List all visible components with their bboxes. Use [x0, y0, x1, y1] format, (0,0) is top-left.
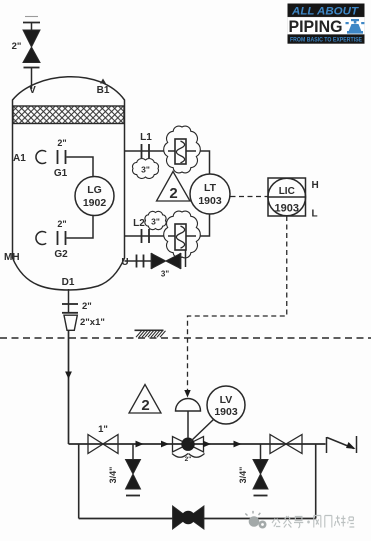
drain tee right wire — [260, 444, 262, 460]
gauge glass nozzle G1: open-end C symbol — [36, 151, 46, 164]
signal wire LT to LIC (dashed) — [231, 196, 268, 198]
drain valve 3/4 inch left (filled) — [126, 460, 141, 490]
flow arrow — [161, 441, 169, 448]
gate valve 3" at U (filled) — [152, 253, 181, 269]
svg-text:3": 3" — [161, 270, 169, 279]
svg-text:2"x1": 2"x1" — [80, 317, 105, 328]
cloud note around L2 seal — [164, 211, 201, 258]
svg-text:2: 2 — [141, 397, 149, 414]
bypass pipe run — [79, 518, 316, 520]
cloud note 3" (L2) — [145, 211, 166, 229]
svg-text:L1: L1 — [140, 132, 152, 143]
svg-text:3/4": 3/4" — [108, 467, 118, 484]
nozzle D1 stub — [68, 289, 70, 313]
flow arrow down — [65, 372, 72, 380]
svg-text:FROM BASIC TO EXPERTISE: FROM BASIC TO EXPERTISE — [290, 36, 363, 43]
diaphragm actuator — [176, 399, 201, 411]
gauge glass nozzle G2: open-end C symbol — [36, 232, 46, 245]
flange pair L1 — [142, 144, 150, 158]
nozzle L2 wire — [125, 214, 210, 236]
svg-text:2": 2" — [57, 138, 66, 148]
flange D1 — [62, 303, 78, 305]
flow arrow — [234, 441, 242, 448]
ground hatch — [135, 330, 166, 337]
svg-text:L: L — [312, 209, 318, 220]
watermark text (placeholder glyph strokes) — [272, 516, 354, 529]
drain tee left wire — [132, 444, 134, 460]
vessel shell — [13, 77, 125, 290]
level gauge LG 1902 — [75, 177, 114, 216]
svg-text:A1: A1 — [13, 153, 26, 164]
level transmitter LT 1903 — [190, 174, 230, 214]
fail-open wavy marks under valve — [172, 454, 205, 458]
svg-text:LT: LT — [204, 182, 217, 194]
svg-text:1903: 1903 — [214, 406, 238, 418]
insulation triangle note 2 (lower) — [129, 385, 161, 415]
svg-text:2: 2 — [169, 185, 177, 202]
svg-text:G1: G1 — [54, 168, 68, 179]
bypass riser right — [315, 444, 317, 519]
svg-text:LV: LV — [220, 394, 233, 406]
demister pad (crosshatch band) — [13, 106, 124, 124]
relief valve 2 inch (filled vertical bowtie) — [23, 30, 40, 63]
insulation triangle note 2 (upper) — [157, 172, 191, 203]
vent line to atmosphere — [23, 17, 40, 31]
svg-text:2": 2" — [185, 456, 192, 463]
wire G1 to LG — [67, 157, 94, 177]
logo: ALL ABOUT PIPING badge — [288, 4, 365, 44]
svg-text:1903: 1903 — [275, 203, 299, 215]
flow arrow — [136, 441, 144, 448]
svg-text:3/4": 3/4" — [238, 467, 248, 484]
svg-text:ALL ABOUT: ALL ABOUT — [291, 6, 359, 18]
signal wire LIC to LV (dashed, with arrow) — [184, 216, 286, 398]
svg-text:D1: D1 — [62, 277, 75, 288]
diaphragm seal element L1 (rect with capillary squiggle) — [175, 139, 186, 164]
svg-text:1902: 1902 — [83, 197, 107, 209]
svg-text:2": 2" — [57, 219, 66, 229]
nozzle V stub wire — [31, 68, 33, 90]
reducer 2"x1" — [62, 313, 78, 331]
flange under relief valve — [24, 67, 40, 69]
flow arrow — [203, 441, 211, 448]
label B1 with leader arrow — [97, 79, 110, 97]
svg-text:MH: MH — [4, 252, 20, 263]
nozzle L1 wire — [125, 151, 210, 174]
flange pair G1 — [58, 150, 66, 164]
block valve 1 inch (gate, open) — [88, 435, 118, 454]
flange pair G2 — [58, 231, 66, 245]
line break / slope-to-drain symbol — [327, 436, 357, 453]
svg-text:LIC: LIC — [279, 186, 295, 197]
drain pipe down — [68, 330, 70, 444]
capillary drop from L2 seal — [185, 250, 187, 267]
wire G2 to LG — [67, 215, 94, 238]
drain valve 3/4 inch right (filled) — [253, 460, 268, 490]
svg-text:PIPING: PIPING — [289, 18, 343, 36]
pipe cap right — [254, 495, 268, 497]
bypass riser left — [78, 444, 80, 519]
bypass globe valve (filled) — [173, 506, 204, 529]
svg-text:1": 1" — [98, 424, 108, 435]
nozzle U wire — [125, 260, 152, 262]
control valve LV body (globe) — [173, 437, 204, 453]
cloud note 3" (L1) — [133, 159, 159, 179]
flange pair L2 — [142, 229, 150, 243]
wire through cloud L2 — [168, 235, 196, 237]
svg-text:U: U — [121, 257, 128, 268]
main pipe run — [69, 443, 326, 445]
svg-text:LG: LG — [87, 184, 102, 196]
level controller LIC 1903 (circle in square) — [268, 178, 306, 216]
svg-text:L2: L2 — [133, 218, 145, 229]
block valve right (gate, open) — [270, 435, 302, 454]
flange pair U — [137, 255, 144, 268]
grade line (dashed) — [0, 337, 371, 339]
control valve stem — [187, 411, 189, 438]
diaphragm seal element L2 (rect with capillary squiggle) — [175, 224, 186, 250]
pipe cap left — [126, 495, 140, 497]
cloud note around L1 seal — [164, 126, 201, 173]
watermark icon — [245, 511, 266, 529]
svg-text:2": 2" — [12, 41, 22, 52]
svg-text:3": 3" — [151, 217, 160, 227]
svg-text:3": 3" — [141, 165, 150, 175]
svg-text:H: H — [312, 180, 319, 191]
svg-text:G2: G2 — [54, 249, 68, 260]
svg-text:B1: B1 — [97, 85, 110, 96]
wire through cloud L1 — [168, 150, 196, 152]
tag balloon LV 1903 — [190, 386, 245, 442]
svg-text:1903: 1903 — [198, 195, 222, 207]
svg-text:2": 2" — [82, 301, 92, 312]
svg-text:V: V — [29, 85, 36, 96]
